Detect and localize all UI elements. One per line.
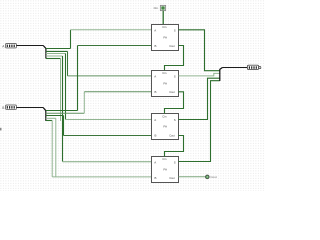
wire A2 branch [46, 53, 66, 55]
svg-text:Cout: Cout [210, 175, 217, 179]
wire B3 vertical [55, 118, 57, 177]
wire A2 to FA3.A [66, 119, 152, 121]
svg-text:Cin: Cin [162, 115, 167, 119]
svg-text:Cout: Cout [169, 134, 175, 138]
wire bus A [16, 45, 43, 47]
input pin B[3:0] [2, 105, 16, 110]
svg-text:S: S [174, 160, 176, 164]
svg-text:B: B [155, 176, 157, 180]
wire B0 branch [46, 110, 78, 112]
wire B3 to FA4.B [52, 176, 151, 178]
wire A0 to FA1.A [71, 29, 152, 31]
splitter S diagonal [220, 68, 223, 70]
wire A1 vertical [67, 51, 69, 76]
full adder FA3 [152, 114, 179, 140]
wire B0 vertical [77, 46, 79, 111]
splitter B diagonal [43, 108, 46, 111]
wire A3 vertical [62, 56, 64, 162]
output pin S[3:0] [247, 65, 261, 69]
wire A0 branch [46, 48, 71, 50]
svg-text:FA: FA [163, 125, 167, 129]
wire carry FA3.Cout to FA4.Cin [165, 136, 184, 157]
svg-text:A: A [154, 74, 156, 78]
svg-text:Cin: Cin [162, 157, 167, 161]
wire B3 branch [46, 117, 56, 119]
wire B2 to FA3.B [64, 135, 152, 137]
svg-text:FA: FA [163, 35, 167, 39]
splitter A diagonal [43, 46, 46, 49]
wire B1 branch [46, 112, 85, 114]
svg-text:S: S [174, 118, 176, 122]
wire bus S [222, 67, 247, 69]
svg-text:Cin: Cin [162, 71, 167, 75]
wire bus B [16, 107, 43, 109]
wire A2 vertical [65, 54, 67, 120]
svg-text:B: B [155, 134, 157, 138]
wire Cin to FA1 [162, 11, 164, 25]
wire S1 from FA2.S [179, 73, 220, 76]
wire B1 vertical [83, 92, 85, 114]
wire carry FA1.Cout to FA2.Cin [165, 46, 184, 71]
splitter A spine [45, 48, 47, 58]
svg-text:S: S [174, 74, 176, 78]
wire B4 stub branch [46, 120, 52, 122]
svg-text:S: S [174, 28, 176, 32]
full adder FA4 [152, 157, 179, 183]
wire A3 to FA4.A [63, 161, 152, 163]
wire B4 stub vertical [51, 121, 53, 177]
wire B2 vertical [63, 116, 65, 136]
output pin Cout [205, 175, 217, 179]
svg-text:FA: FA [163, 81, 167, 85]
wire A1 to FA2.A [68, 75, 152, 77]
wire FA4.Cout to output [179, 176, 206, 178]
wire carry FA2.Cout to FA3.Cin [165, 92, 184, 114]
wire A1 branch [46, 50, 68, 52]
full adder FA2 [152, 71, 179, 97]
svg-text:B: B [155, 90, 157, 94]
wire A4 stub branch [46, 58, 61, 60]
svg-text:FA: FA [163, 167, 167, 171]
full adder FA1 [152, 25, 179, 51]
wire S2 from FA3.S [179, 78, 220, 119]
wire S0 from FA1.S [179, 30, 220, 71]
input pin A[3:0] [2, 44, 16, 49]
splitter B spine [45, 111, 47, 121]
svg-text:Cin: Cin [154, 6, 159, 10]
wire A0 vertical [70, 30, 72, 49]
wire A3 branch [46, 55, 63, 57]
wire B0 to FA1.B [78, 45, 152, 47]
svg-text:A: A [154, 118, 156, 122]
wire A4 stub vertical [60, 59, 62, 121]
input pin Cin [154, 5, 166, 10]
wire B1 to FA2.B [84, 91, 151, 93]
wire S3 from FA4.S [179, 81, 220, 162]
svg-text:Cout: Cout [169, 90, 175, 94]
svg-text:A: A [154, 28, 156, 32]
svg-text:B: B [155, 44, 157, 48]
svg-text:Cin: Cin [162, 25, 167, 29]
svg-text:Cout: Cout [169, 176, 175, 180]
stray label mark left edge [0, 128, 2, 131]
wire B2 branch [46, 115, 64, 117]
svg-text:A: A [154, 160, 156, 164]
splitter S spine [219, 69, 221, 81]
svg-text:B: B [2, 106, 4, 110]
svg-text:Cout: Cout [169, 44, 175, 48]
